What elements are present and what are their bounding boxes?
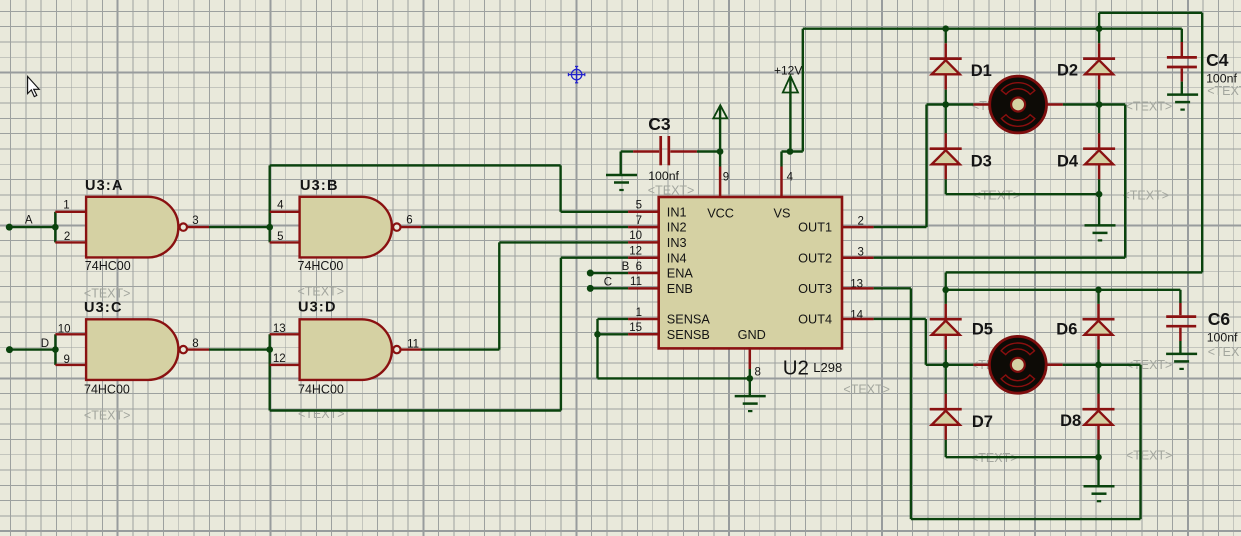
wire C4 top bbox=[1181, 29, 1183, 56]
wire SENS vertical bbox=[596, 319, 598, 378]
chip U2 pin stub VS 4 bbox=[780, 167, 783, 199]
svg-text:<TEXT>: <TEXT> bbox=[648, 184, 695, 198]
text placeholder D7 bbox=[971, 451, 1018, 465]
svg-text:74HC00: 74HC00 bbox=[298, 259, 344, 273]
wire U3:A input link bbox=[54, 212, 56, 243]
chip U2 pin stub IN4 bbox=[628, 256, 660, 259]
text placeholder motor M2 left bbox=[971, 358, 1018, 372]
chip U2 label VS bbox=[774, 206, 791, 220]
node D terminal dot bbox=[6, 346, 13, 353]
chip U2 label GND bbox=[738, 328, 766, 342]
svg-text:D7: D7 bbox=[972, 413, 993, 431]
node motor1 left bbox=[942, 101, 949, 108]
wire D8 top bbox=[1097, 365, 1099, 409]
node SENSB junction bbox=[594, 331, 601, 338]
chip U2 pin stub SENSB bbox=[628, 333, 660, 336]
node B terminal dot bbox=[587, 270, 594, 277]
pin number 11 bbox=[630, 276, 642, 288]
wire U3:C out to node bbox=[209, 348, 270, 350]
svg-text:<TEXT>: <TEXT> bbox=[84, 409, 131, 423]
text placeholder U2 bbox=[843, 383, 890, 397]
wire OUT1 bbox=[874, 226, 927, 228]
svg-text:100nf: 100nf bbox=[1207, 331, 1238, 345]
svg-text:12: 12 bbox=[273, 353, 286, 365]
gate U3:A pin 1 stub bbox=[55, 211, 86, 213]
svg-text:74HC00: 74HC00 bbox=[85, 259, 131, 273]
wire OUT3 right vertical bbox=[1139, 365, 1141, 519]
wire D5 bottom bbox=[944, 335, 947, 365]
svg-text:1: 1 bbox=[63, 199, 69, 211]
svg-text:10: 10 bbox=[629, 230, 642, 242]
node bridge1 bottom bbox=[1096, 191, 1103, 198]
wire VS down bbox=[780, 152, 782, 167]
pin number 4 bbox=[787, 171, 794, 183]
wire +12V node horizontal bbox=[782, 150, 803, 152]
svg-text:D2: D2 bbox=[1057, 62, 1078, 80]
gate U3:D pin 12 stub bbox=[270, 364, 300, 366]
node motor2 right bbox=[1095, 362, 1102, 369]
label C4 bbox=[1206, 50, 1229, 70]
capacitor C4 plates bbox=[1167, 57, 1197, 67]
chip U2 label OUT4 bbox=[798, 313, 832, 327]
svg-text:<TEXT>: <TEXT> bbox=[1126, 100, 1173, 114]
gate U3:C pin 9 stub bbox=[55, 364, 86, 366]
svg-text:<TEXT>: <TEXT> bbox=[1208, 345, 1241, 359]
pin number U3:D 12 bbox=[273, 353, 286, 365]
chip U2 label VCC bbox=[707, 206, 734, 220]
node top rail D2 bbox=[1096, 25, 1103, 32]
wire OUT3 bbox=[874, 287, 911, 289]
svg-text:U2: U2 bbox=[783, 356, 809, 379]
chip U2 label SENSA bbox=[667, 313, 711, 327]
svg-text:2: 2 bbox=[858, 215, 864, 227]
label D1 bbox=[971, 62, 992, 80]
chip U2 pin stub OUT3 13 bbox=[841, 287, 874, 290]
wire OUT4 bbox=[874, 318, 926, 320]
wire OUT3 bottom bbox=[911, 518, 1141, 520]
wire OUT3 to motor2 node bbox=[1099, 364, 1141, 366]
wire U3:B input link vertical bbox=[269, 165, 271, 242]
wire D6 top bbox=[1097, 290, 1099, 319]
svg-text:C: C bbox=[604, 277, 612, 289]
svg-text:11: 11 bbox=[630, 276, 642, 288]
svg-text:IN2: IN2 bbox=[667, 221, 687, 235]
label U3:C bbox=[84, 300, 123, 316]
chip U2 label ENB bbox=[667, 282, 693, 296]
chip U2 label IN3 bbox=[667, 236, 687, 250]
svg-text:15: 15 bbox=[629, 322, 642, 334]
ground symbol C3 bbox=[606, 175, 637, 190]
wire bridge2 ground stem bbox=[1097, 457, 1099, 486]
svg-text:6: 6 bbox=[406, 215, 412, 227]
label U3:B bbox=[300, 178, 339, 194]
label net C bbox=[604, 277, 612, 289]
mouse cursor bbox=[28, 77, 40, 97]
text placeholder D8 bbox=[1126, 449, 1173, 463]
pin number 3 bbox=[858, 247, 864, 259]
pin number 7 bbox=[636, 215, 642, 227]
svg-text:C4: C4 bbox=[1206, 50, 1229, 70]
wire D3 top bbox=[945, 105, 947, 149]
svg-text:IN3: IN3 bbox=[667, 236, 687, 250]
pin number U3:A 3 bbox=[192, 215, 198, 227]
wire IN3 horizontal bbox=[499, 241, 628, 243]
svg-text:1: 1 bbox=[636, 307, 642, 319]
wire cross horizontal bbox=[946, 271, 1202, 273]
motor M2 bbox=[989, 336, 1046, 393]
svg-text:<TEXT>: <TEXT> bbox=[974, 189, 1021, 203]
chip U2 pin stub IN2 bbox=[628, 226, 660, 229]
nand gate U3:B bbox=[300, 197, 401, 258]
wire U3:C input link bbox=[54, 334, 56, 365]
ground symbol C6 bbox=[1166, 354, 1197, 369]
pin number U3:D 13 bbox=[273, 323, 286, 335]
wire D6 bottom bbox=[1097, 335, 1100, 365]
wire IN1 vertical bbox=[559, 165, 561, 211]
wire IN4 vertical bbox=[560, 258, 562, 411]
label C3 value 100nf bbox=[648, 169, 679, 183]
svg-text:SENSB: SENSB bbox=[667, 328, 710, 342]
capacitor C6 plates bbox=[1166, 317, 1196, 327]
motor pin M2 left bbox=[973, 364, 989, 367]
text placeholder C4 bbox=[1207, 84, 1241, 98]
ground symbol C4 bbox=[1167, 95, 1198, 110]
wire bridge2 rail bbox=[946, 289, 1181, 291]
pin number 5 bbox=[636, 200, 642, 212]
svg-text:U3:A: U3:A bbox=[85, 178, 124, 194]
chip U2 label IN4 bbox=[667, 251, 687, 265]
pin number U3:B 5 bbox=[277, 231, 283, 243]
label D6 bbox=[1056, 321, 1077, 339]
svg-text:ENA: ENA bbox=[667, 267, 694, 281]
wire net C to ENB bbox=[590, 287, 628, 289]
chip U2 pin stub ENB bbox=[628, 287, 660, 290]
pin number 14 bbox=[850, 309, 863, 321]
svg-text:<TEXT>: <TEXT> bbox=[843, 383, 890, 397]
wire feed to IN4 bottom bbox=[270, 409, 561, 411]
node C terminal dot bbox=[587, 285, 594, 292]
label D7 bbox=[972, 413, 993, 431]
label U3:B 74HC00 bbox=[298, 259, 344, 273]
wire net D bbox=[10, 348, 56, 350]
svg-text:5: 5 bbox=[636, 200, 642, 212]
label U2 bbox=[783, 356, 809, 379]
wire D7 bottom bbox=[944, 425, 947, 457]
svg-text:U3:B: U3:B bbox=[300, 178, 339, 194]
svg-text:IN4: IN4 bbox=[667, 251, 687, 265]
label U3:A bbox=[85, 178, 124, 194]
wire upper rail vertical bbox=[1098, 13, 1100, 29]
text placeholder motor M2 right bbox=[1126, 358, 1173, 372]
label C6 bbox=[1208, 309, 1231, 329]
svg-text:6: 6 bbox=[636, 261, 642, 273]
pin number 9 bbox=[723, 171, 729, 183]
svg-text:D4: D4 bbox=[1057, 152, 1079, 170]
pin number U3:C 10 bbox=[58, 323, 71, 335]
label net A bbox=[25, 215, 33, 227]
wire U3:A out to node bbox=[209, 226, 270, 228]
diode D8 bbox=[1083, 409, 1115, 425]
text placeholder motor M1 right bbox=[1126, 100, 1173, 114]
gate U3:B pin 5 stub bbox=[270, 241, 300, 243]
text placeholder U3:C bbox=[84, 409, 131, 423]
node +12V junction bbox=[787, 148, 794, 155]
pin number 2 bbox=[858, 215, 864, 227]
diode D4 bbox=[1083, 149, 1115, 165]
wire C6 bottom bbox=[1179, 328, 1182, 354]
wire +12V arrow stem bbox=[789, 77, 791, 152]
svg-text:4: 4 bbox=[277, 199, 284, 211]
pin number 8 bbox=[755, 367, 761, 379]
chip U2 pin stub IN3 bbox=[628, 241, 660, 244]
wire U3:D input link vertical bbox=[269, 334, 271, 410]
wire D5 top bbox=[945, 290, 947, 319]
svg-text:100nf: 100nf bbox=[1206, 72, 1237, 86]
chip U2 pin stub OUT1 2 bbox=[841, 226, 874, 229]
capacitor C3 right pin bbox=[670, 150, 697, 153]
wire OUT3 vertical bbox=[910, 288, 912, 519]
svg-text:C6: C6 bbox=[1208, 309, 1231, 329]
text placeholder U3:A bbox=[84, 287, 131, 301]
text placeholder C6 bbox=[1208, 345, 1241, 359]
pin number 10 bbox=[629, 230, 642, 242]
node motor2 left bbox=[942, 362, 949, 369]
diode D1 bbox=[930, 59, 962, 75]
wire D2 bottom bbox=[1098, 74, 1101, 104]
gate U3:B pin 4 stub bbox=[270, 211, 300, 213]
svg-text:D8: D8 bbox=[1060, 412, 1081, 430]
text placeholder D3 bbox=[974, 189, 1021, 203]
wire +12V rail vertical bbox=[802, 29, 804, 152]
wire VCC down bbox=[719, 152, 721, 167]
node U3:D input junction bbox=[266, 346, 273, 353]
wire VCC arrow stem bbox=[719, 106, 721, 152]
node top rail D1 bbox=[942, 25, 949, 32]
chip U2 label IN2 bbox=[667, 221, 687, 235]
chip U2 pin stub SENSA bbox=[628, 318, 660, 321]
wire net B to ENA bbox=[590, 272, 628, 274]
nand gate U3:A bbox=[86, 197, 187, 258]
pin number U3:D 11 bbox=[407, 338, 419, 350]
node GND junction bbox=[747, 375, 754, 382]
node bridge2 rail D5 bbox=[942, 287, 949, 294]
motor pin M2 right bbox=[1046, 364, 1062, 367]
svg-text:D3: D3 bbox=[971, 152, 992, 170]
chip U2 label OUT2 bbox=[798, 251, 832, 265]
svg-text:<TEXT>: <TEXT> bbox=[84, 287, 131, 301]
wire U3:B out to IN2 bbox=[421, 226, 628, 228]
svg-text:100nf: 100nf bbox=[648, 169, 679, 183]
diode D7 bbox=[930, 409, 962, 425]
svg-text:2: 2 bbox=[64, 231, 70, 243]
gate U3:C output stub bbox=[187, 348, 209, 350]
svg-text:ENB: ENB bbox=[667, 282, 693, 296]
svg-text:D5: D5 bbox=[972, 321, 993, 339]
svg-text:74HC00: 74HC00 bbox=[84, 383, 130, 397]
ground symbol U2 bbox=[735, 396, 766, 411]
label U3:D bbox=[298, 300, 337, 316]
label D5 bbox=[972, 321, 993, 339]
chip U2 pin stub VCC 9 bbox=[719, 167, 722, 199]
node bridge2 rail D6 bbox=[1095, 287, 1102, 294]
chip U2 label IN1 bbox=[667, 205, 687, 219]
wire bridge1 ground stem bbox=[1098, 194, 1100, 225]
wire OUT1 vertical bbox=[925, 105, 927, 228]
pin number 12 bbox=[629, 246, 642, 258]
svg-text:74HC00: 74HC00 bbox=[298, 383, 344, 397]
label D8 bbox=[1060, 412, 1081, 430]
wire OUT2 bbox=[874, 257, 1126, 259]
text placeholder U3:B bbox=[298, 285, 345, 299]
wire SENSB horizontal bbox=[598, 333, 629, 335]
wire IN3 vertical bbox=[498, 242, 500, 349]
svg-text:<TEXT>: <TEXT> bbox=[1207, 84, 1241, 98]
pin number U3:C 8 bbox=[192, 338, 198, 350]
chip U2 pin stub OUT4 14 bbox=[841, 318, 874, 321]
chip U2 label OUT1 bbox=[798, 221, 832, 235]
label D2 bbox=[1057, 62, 1078, 80]
pin number 15 bbox=[629, 322, 642, 334]
node motor1 right bbox=[1096, 101, 1103, 108]
wire net A bbox=[9, 226, 55, 228]
ground symbol bridge1 bbox=[1085, 225, 1116, 240]
origin marker bbox=[568, 66, 584, 82]
svg-text:U3:C: U3:C bbox=[84, 300, 123, 316]
svg-text:13: 13 bbox=[273, 323, 286, 335]
wire SENSA horizontal bbox=[598, 318, 629, 320]
power arrow +12V bbox=[783, 76, 798, 93]
motor pin M1 right bbox=[1047, 103, 1063, 106]
wire D2 top bbox=[1098, 29, 1100, 59]
label U2 value L298 bbox=[813, 360, 842, 375]
wire D1 top bbox=[945, 29, 947, 59]
svg-text:L298: L298 bbox=[813, 360, 842, 375]
wire IN4 horizontal bbox=[561, 257, 628, 259]
svg-text:<TEXT>: <TEXT> bbox=[1126, 449, 1173, 463]
svg-text:U3:D: U3:D bbox=[298, 300, 337, 316]
gate U3:C pin 10 stub bbox=[55, 333, 86, 335]
svg-text:IN1: IN1 bbox=[667, 205, 687, 219]
pin number U3:A 1 bbox=[63, 199, 69, 211]
ground symbol bridge2 bbox=[1084, 486, 1115, 501]
wire D8 bottom bbox=[1097, 425, 1100, 457]
capacitor C3 plates bbox=[661, 136, 669, 165]
text placeholder motor M1 left bbox=[972, 99, 1019, 113]
node D junction bbox=[52, 346, 59, 353]
label C6 value 100nf bbox=[1207, 331, 1238, 345]
label C3 bbox=[648, 114, 671, 134]
wire C6 top bbox=[1179, 290, 1181, 315]
svg-text:B: B bbox=[622, 261, 630, 273]
gate U3:A output stub bbox=[187, 226, 209, 228]
wire D4 bottom bbox=[1098, 164, 1101, 194]
power arrow VCC bbox=[713, 105, 727, 118]
chip U2 pin stub GND 8 bbox=[749, 347, 752, 369]
wire D1 bottom bbox=[944, 74, 947, 104]
capacitor C3 left pin bbox=[633, 150, 659, 153]
svg-text:VCC: VCC bbox=[707, 206, 734, 220]
svg-text:SENSA: SENSA bbox=[667, 313, 711, 327]
svg-text:8: 8 bbox=[192, 338, 198, 350]
motor M1 bbox=[990, 76, 1047, 133]
motor pin M1 left bbox=[973, 103, 989, 106]
node VCC junction bbox=[717, 148, 724, 155]
wire C3 to VCC node bbox=[697, 150, 720, 152]
label net B bbox=[622, 261, 630, 273]
wire bridge2 feed bbox=[945, 272, 947, 289]
gate U3:D pin 13 stub bbox=[270, 333, 300, 335]
text placeholder D4 bbox=[1123, 189, 1170, 203]
wire GND stem bbox=[749, 369, 751, 396]
svg-text:A: A bbox=[25, 215, 33, 227]
chip U2 pin stub IN1 bbox=[628, 211, 660, 214]
text placeholder U3:D bbox=[298, 407, 345, 421]
wire bridge1 bottom rail bbox=[946, 193, 1099, 195]
svg-text:<TEXT>: <TEXT> bbox=[298, 407, 345, 421]
wire C3 left bbox=[621, 150, 633, 152]
label net D bbox=[41, 338, 49, 350]
svg-text:8: 8 bbox=[755, 367, 761, 379]
wire right edge vertical bbox=[1201, 13, 1203, 273]
label D3 bbox=[971, 152, 992, 170]
diode D3 bbox=[930, 149, 962, 165]
pin number U3:A 2 bbox=[64, 231, 70, 243]
ic U2 L298 body bbox=[659, 197, 842, 348]
wire D7 top bbox=[945, 365, 947, 409]
svg-text:9: 9 bbox=[63, 354, 69, 366]
wire motor1 right bbox=[1063, 103, 1099, 105]
node A junction bbox=[52, 224, 59, 231]
wire C4 bottom bbox=[1181, 69, 1184, 95]
chip U2 label ENA bbox=[667, 267, 694, 281]
wire bridge2 bottom rail bbox=[946, 456, 1099, 458]
svg-text:D: D bbox=[41, 338, 49, 350]
diode D2 bbox=[1083, 59, 1115, 75]
diode D5 bbox=[930, 319, 962, 335]
svg-text:12: 12 bbox=[629, 246, 642, 258]
pin number 13 bbox=[850, 279, 863, 291]
nand gate U3:D bbox=[300, 319, 401, 380]
text placeholder C3 bbox=[648, 184, 695, 198]
wire top rail bbox=[803, 28, 1182, 30]
svg-text:10: 10 bbox=[58, 323, 71, 335]
svg-text:D1: D1 bbox=[971, 62, 992, 80]
nand gate U3:C bbox=[86, 319, 187, 380]
svg-text:9: 9 bbox=[723, 171, 729, 183]
pin number U3:B 6 bbox=[406, 215, 412, 227]
svg-text:OUT2: OUT2 bbox=[798, 251, 832, 265]
wire motor1 left bbox=[946, 103, 974, 105]
label C4 value 100nf bbox=[1206, 72, 1237, 86]
label U3:A 74HC00 bbox=[85, 259, 131, 273]
svg-text:<TEXT>: <TEXT> bbox=[298, 285, 345, 299]
chip U2 pin stub ENA bbox=[628, 272, 660, 275]
pin number 6 bbox=[636, 261, 642, 273]
wire OUT1 to motor node bbox=[927, 103, 946, 105]
gate U3:D output stub bbox=[401, 348, 421, 350]
wire upper rail bbox=[1099, 12, 1202, 14]
wire D3 bottom bbox=[944, 164, 947, 194]
wire C3 ground stem bbox=[620, 152, 622, 176]
label U3:D 74HC00 bbox=[298, 383, 344, 397]
svg-text:5: 5 bbox=[277, 231, 283, 243]
pin number U3:C 9 bbox=[63, 354, 69, 366]
wire SENS to GND bbox=[598, 377, 750, 379]
svg-text:OUT1: OUT1 bbox=[798, 221, 832, 235]
chip U2 pin stub OUT2 3 bbox=[841, 256, 874, 259]
diode D6 bbox=[1083, 319, 1115, 335]
svg-text:C3: C3 bbox=[648, 114, 671, 134]
